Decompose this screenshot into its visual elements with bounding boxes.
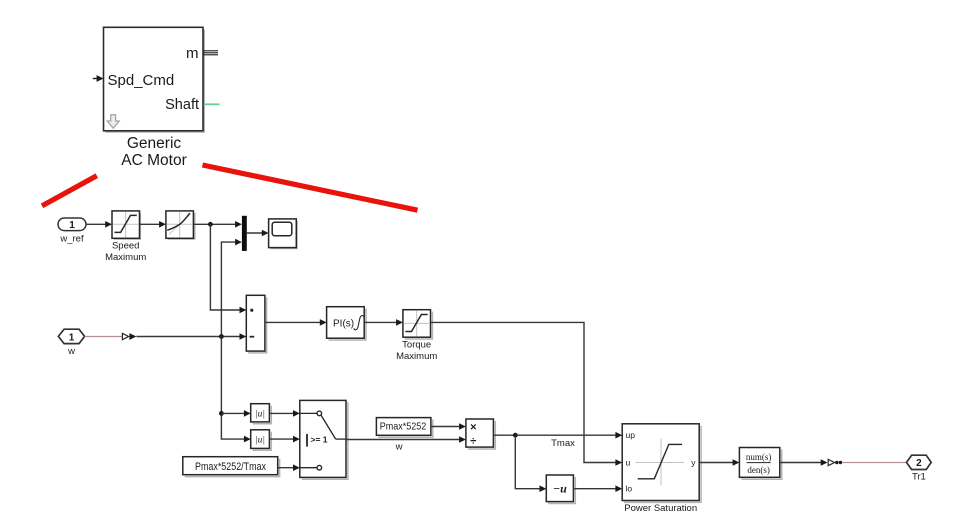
label Speed Maximum	[105, 241, 146, 263]
wire branch down to Sum plus input	[210, 224, 246, 313]
svg-text:Pmax*5252/Tmax: Pmax*5252/Tmax	[195, 461, 266, 473]
outport 2 Tr1 (hexagon)	[907, 455, 932, 469]
block Speed Maximum (saturation)	[112, 211, 140, 239]
svg-text:−u: −u	[553, 482, 567, 496]
svg-text:PI(s): PI(s)	[333, 318, 354, 329]
block Transfer Fcn num(s)/den(s)	[739, 448, 781, 480]
svg-text:Tr1: Tr1	[912, 471, 926, 482]
svg-text:lo: lo	[626, 484, 633, 494]
block Generic AC Motor (subsystem)	[104, 27, 205, 132]
label Generic AC Motor	[121, 135, 186, 169]
svg-text:1: 1	[69, 332, 75, 343]
wire Abs1 to Switch input 1	[269, 410, 299, 417]
signal w thin red segment	[85, 336, 122, 338]
wire Mux to Scope	[247, 230, 269, 237]
block Divide	[466, 419, 495, 449]
constant Pmax*5252	[376, 418, 432, 438]
wire Torque Maximum to Power Saturation u input	[431, 322, 623, 465]
wire Sum to PI controller	[265, 319, 327, 326]
hollow conversion arrow on w	[122, 333, 128, 339]
bus signal m (3 lines)	[204, 51, 218, 55]
wire w to Sum minus input	[136, 333, 246, 340]
svg-text:|u|: |u|	[255, 436, 265, 446]
mux bar	[242, 216, 247, 251]
svg-text:÷: ÷	[470, 436, 476, 448]
svg-text:2: 2	[916, 458, 922, 469]
wire Rate Limiter to Mux input 1	[193, 221, 242, 228]
wire Switch to Divide	[346, 436, 466, 443]
block Scope	[269, 219, 297, 249]
junction on Tmax wire	[513, 433, 518, 438]
svg-text:num(s): num(s)	[746, 452, 772, 462]
signal Shaft (green)	[204, 103, 220, 105]
inport 1 w (hexagon)	[58, 329, 84, 343]
svg-text:×: ×	[470, 422, 476, 434]
block Power Saturation	[622, 424, 701, 503]
wire Pmax*5252 to Divide times input	[431, 423, 466, 430]
svg-text:w: w	[67, 346, 75, 357]
signal Tr1 thin red segment	[842, 462, 907, 464]
svg-text:den(s): den(s)	[747, 465, 770, 475]
block Torque Maximum (saturation)	[403, 310, 433, 339]
label Torque Maximum	[396, 340, 437, 362]
wire -u to Power Saturation lo input	[573, 485, 622, 492]
svg-text:Generic: Generic	[127, 135, 182, 152]
block Rate Limiter	[166, 211, 195, 239]
svg-text:Power Saturation: Power Saturation	[624, 503, 697, 514]
wire Power Saturation to Transfer Fcn	[699, 459, 739, 466]
arrow into Abs2	[244, 436, 251, 443]
svg-text:1: 1	[69, 220, 75, 231]
wire w_ref to Speed Maximum	[86, 221, 112, 228]
dropdown arrow icon	[107, 115, 119, 128]
svg-text:Tmax: Tmax	[551, 438, 575, 449]
wire Transfer Fcn to outport (dark part with arrow)	[780, 459, 828, 466]
block PI(s) controller	[327, 307, 366, 340]
dots on Tr1 wire	[835, 461, 842, 464]
wire Speed Maximum to Rate Limiter	[140, 221, 166, 228]
wire junction to Abs1	[221, 410, 250, 417]
svg-text:u: u	[626, 458, 631, 468]
svg-text:w_ref: w_ref	[59, 233, 84, 244]
svg-text:m: m	[186, 45, 199, 62]
junction on w_ref wire	[208, 222, 213, 227]
svg-text:Pmax*5252: Pmax*5252	[380, 420, 427, 432]
hollow conversion arrow on Tr1	[828, 459, 834, 465]
junction on abs branch	[219, 411, 224, 416]
svg-text:Maximum: Maximum	[396, 351, 437, 362]
svg-text:up: up	[626, 430, 636, 440]
block -u gain	[546, 475, 575, 504]
wire PI to Torque Maximum	[364, 319, 403, 326]
svg-text:AC Motor: AC Motor	[121, 152, 186, 169]
svg-text:Spd_Cmd: Spd_Cmd	[108, 72, 175, 89]
sum block	[246, 295, 266, 353]
wire Divide to Power Saturation up input	[493, 432, 622, 439]
svg-text:w: w	[395, 442, 403, 453]
block Abs2 |u|	[251, 430, 272, 451]
svg-text:>= 1: >= 1	[311, 434, 328, 444]
svg-text:Torque: Torque	[402, 340, 431, 351]
input arrow into Generic AC Motor	[93, 75, 104, 82]
constant Pmax*5252/Tmax	[183, 457, 280, 477]
wire branch down to -u	[515, 435, 546, 492]
wire w branch up to Mux input 2	[221, 239, 242, 337]
red callout line left	[42, 176, 97, 206]
wire constant to Switch input 3	[278, 464, 300, 471]
red callout line right	[203, 165, 418, 210]
svg-text:Speed: Speed	[112, 241, 139, 252]
wire w branch down to Abs blocks	[221, 337, 244, 440]
svg-text:Shaft: Shaft	[165, 97, 199, 113]
svg-text:Maximum: Maximum	[105, 252, 146, 263]
inport 1 w_ref (stadium)	[58, 218, 86, 231]
junction on w wire	[219, 334, 224, 339]
wire Abs2 to Switch control input	[269, 436, 299, 443]
filled arrow on w	[129, 333, 136, 340]
block Abs1 |u|	[251, 404, 272, 424]
svg-text:|u|: |u|	[255, 409, 265, 419]
block Switch	[300, 400, 348, 479]
